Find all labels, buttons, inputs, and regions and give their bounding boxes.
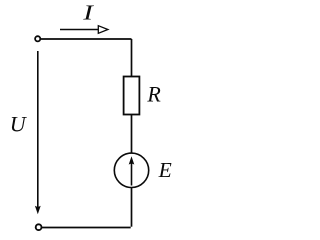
bottom-left terminal <box>36 224 42 230</box>
wire (right side, top segment to resistor) <box>131 39 133 77</box>
svg-text:U: U <box>10 112 28 137</box>
wire (right side, bottom segment) <box>131 188 133 227</box>
voltage arrow U <box>37 51 39 207</box>
svg-text:R: R <box>146 82 161 107</box>
wire (between resistor and source E) <box>131 115 133 155</box>
top wire <box>41 38 132 40</box>
current arrow I <box>60 29 99 31</box>
svg-text:I: I <box>82 1 95 24</box>
source E circle <box>114 153 148 187</box>
svg-text:E: E <box>158 158 172 182</box>
top-left terminal <box>35 36 40 41</box>
source E internal arrow <box>131 160 133 186</box>
resistor R <box>124 77 140 115</box>
bottom wire <box>42 227 131 229</box>
